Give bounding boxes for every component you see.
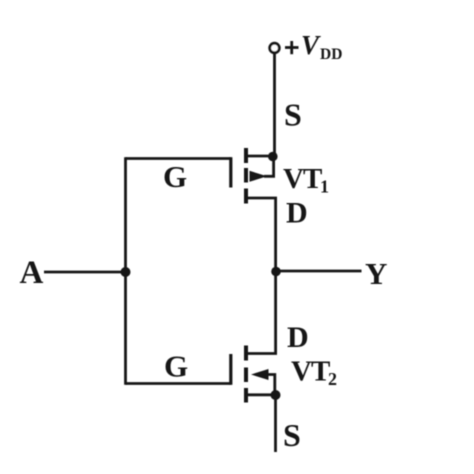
label +VDD <box>285 30 342 63</box>
node: output junction dot <box>271 267 281 277</box>
svg-text:A: A <box>20 255 44 291</box>
wire: bottom gate lead (G of VT2) <box>126 382 232 385</box>
VDD terminal (open circle) <box>270 43 280 53</box>
VT2 drain lead <box>248 272 276 354</box>
transistor VT1 (PMOS) gate bar <box>229 157 232 187</box>
wire: top gate lead (G of VT1) <box>126 157 232 160</box>
node: input junction dot <box>121 267 131 277</box>
wire: output Y <box>276 270 362 273</box>
transistor VT2 channel bars <box>244 346 248 403</box>
svg-text:D: D <box>286 197 308 230</box>
svg-text:D: D <box>287 321 309 354</box>
wire: VT2 source down <box>274 395 277 452</box>
VT2 bulk arrow (points left = NMOS) <box>251 369 269 380</box>
wire: input A <box>44 271 126 274</box>
label VT2 <box>291 356 337 390</box>
node: VT1 source junction dot <box>268 152 278 162</box>
VT1 bulk arrow (points right = PMOS) <box>250 171 268 182</box>
wire: left vertical gate bus <box>124 157 127 385</box>
wire: VDD to VT1 source <box>273 53 276 157</box>
transistor VT2 (NMOS) gate bar <box>229 354 232 385</box>
transistor VT1 channel bars <box>244 148 248 204</box>
svg-text:G: G <box>164 349 188 384</box>
svg-text:G: G <box>163 159 187 194</box>
svg-text:1: 1 <box>320 177 329 197</box>
svg-text:S: S <box>284 97 302 133</box>
VT1 source lead <box>248 155 273 158</box>
svg-text:2: 2 <box>328 369 337 389</box>
svg-text:DD: DD <box>320 46 342 63</box>
svg-text:V: V <box>301 30 321 60</box>
svg-text:VT: VT <box>291 356 330 388</box>
svg-text:Y: Y <box>365 256 387 291</box>
node: VT2 source junction dot <box>271 390 281 400</box>
svg-text:VT: VT <box>283 163 322 195</box>
VT1 drain lead <box>248 198 276 271</box>
VT2 source lead <box>248 393 276 396</box>
label VT1 <box>283 163 329 197</box>
svg-text:S: S <box>283 417 301 453</box>
